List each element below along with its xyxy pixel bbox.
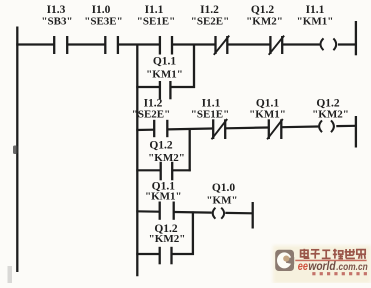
contact I1.0 "SE3E" NO <box>84 4 123 54</box>
wire rung 2 <box>136 126 355 130</box>
left power rail <box>16 27 18 273</box>
watermark title glyph 1 <box>301 249 310 258</box>
svg-text:Q1.0: Q1.0 <box>212 182 236 194</box>
contact Q1.2 "KM2" NO (parallel branch 2) <box>148 140 185 181</box>
svg-text:I1.3: I1.3 <box>47 4 66 16</box>
branch 1 right vertical <box>193 44 195 89</box>
contact Q1.1 "KM1" NC (rung 2) <box>249 98 286 140</box>
svg-text:"SE1E": "SE1E" <box>191 108 230 120</box>
svg-text:"KM1": "KM1" <box>249 108 286 120</box>
watermark eeworld.com.cn <box>298 259 368 273</box>
svg-text:"SE3E": "SE3E" <box>84 16 123 28</box>
svg-text:ee: ee <box>298 259 309 273</box>
svg-text:"KM2": "KM2" <box>149 233 186 245</box>
wire rung 3 <box>136 211 252 213</box>
contact I1.1 "SE1E" NC (rung 2) <box>191 98 230 140</box>
contact I1.2 "SE2E" NC <box>191 4 230 55</box>
right power rail segment 2 <box>355 116 357 148</box>
svg-text:I1.1: I1.1 <box>306 4 325 16</box>
wire branch 1 <box>136 86 195 88</box>
svg-text:"KM1": "KM1" <box>297 16 334 28</box>
watermark slogan row (glyph approximation) <box>312 272 367 275</box>
svg-text:"KM1": "KM1" <box>146 68 183 80</box>
coil Q1.0 "KM" <box>206 182 237 219</box>
contact Q1.1 "KM1" NO (rung 3) <box>145 181 182 220</box>
main branch vertical <box>136 44 138 277</box>
svg-text:"SE1E": "SE1E" <box>137 16 176 28</box>
svg-text:"KM": "KM" <box>206 194 237 206</box>
watermark background <box>273 246 371 284</box>
scan artifact bottom-left smudge <box>8 266 13 283</box>
svg-text:Q1.2: Q1.2 <box>251 4 275 16</box>
svg-text:.com.cn: .com.cn <box>336 262 368 273</box>
branch 2 right vertical <box>189 128 191 171</box>
svg-text:Q1.1: Q1.1 <box>153 56 177 68</box>
contact Q1.1 "KM1" NO (parallel branch 1) <box>146 56 183 100</box>
svg-text:"KM2": "KM2" <box>148 152 185 164</box>
watermark logo square <box>275 250 294 271</box>
branch 3 right vertical <box>192 211 194 255</box>
svg-text:Q1.2: Q1.2 <box>149 140 173 152</box>
svg-text:"KM1": "KM1" <box>145 191 182 203</box>
svg-text:"SB3": "SB3" <box>41 16 72 28</box>
watermark title glyph 2 <box>311 250 320 259</box>
contact Q1.2 "KM2" NC <box>246 4 284 55</box>
contact I1.3 "SB3" NO <box>41 4 72 54</box>
wire rung 1 <box>16 43 355 45</box>
watermark title glyph 6 <box>357 250 365 259</box>
contact I1.1 "SE1E" NO <box>137 4 176 55</box>
svg-text:I1.0: I1.0 <box>92 4 111 16</box>
svg-text:"KM2": "KM2" <box>246 16 283 28</box>
svg-text:I1.2: I1.2 <box>200 4 219 16</box>
scan artifact tick on left rail <box>13 146 18 155</box>
coil Q1.2 "KM2" <box>312 98 349 133</box>
svg-text:"KM2": "KM2" <box>312 108 349 120</box>
coil I1.1 "KM1" <box>297 4 337 50</box>
svg-text:world: world <box>308 259 336 273</box>
right power rail segment 1 <box>355 21 357 55</box>
wire branch 2 <box>136 169 190 171</box>
svg-text:I1.1: I1.1 <box>145 4 164 16</box>
right power rail segment 3 <box>252 202 254 229</box>
watermark title glyph 4 <box>333 249 343 259</box>
contact Q1.2 "KM2" NO (parallel branch 3) <box>149 223 186 264</box>
svg-text:"SE2E": "SE2E" <box>191 16 230 28</box>
contact I1.2 "SE2E" NO (rung 2) <box>132 98 171 138</box>
watermark red underline <box>295 260 366 262</box>
watermark title glyph 5 <box>345 249 355 258</box>
svg-text:"SE2E": "SE2E" <box>132 108 171 120</box>
wire branch 3 <box>136 253 194 255</box>
watermark title glyph 3 <box>322 250 331 258</box>
